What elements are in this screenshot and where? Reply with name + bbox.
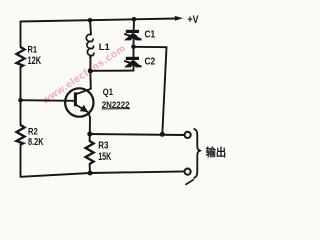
svg-text:R1: R1 — [28, 44, 38, 55]
svg-text:+V: +V — [188, 14, 200, 26]
svg-text:15K: 15K — [98, 151, 111, 163]
svg-text:Q1: Q1 — [103, 87, 113, 97]
svg-text:输出: 输出 — [206, 145, 227, 159]
svg-text:C1: C1 — [145, 29, 156, 40]
svg-text:12K: 12K — [28, 55, 42, 67]
svg-text:L1: L1 — [99, 42, 111, 53]
svg-text:8.2K: 8.2K — [28, 136, 44, 148]
svg-text:C2: C2 — [145, 57, 156, 68]
svg-text:R3: R3 — [98, 141, 109, 152]
